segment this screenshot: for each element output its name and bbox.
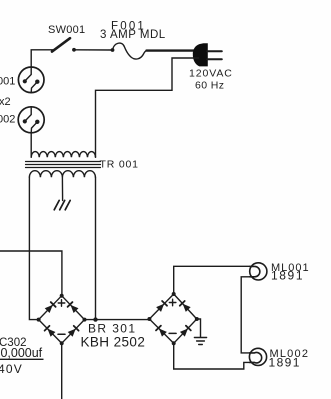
- svg-text:KBH 2502: KBH 2502: [81, 335, 146, 350]
- transformer secondary center tap wire: [61, 177, 63, 200]
- lamp ML002 filament loop: [250, 353, 262, 363]
- svg-text:x2: x2: [0, 96, 11, 108]
- bridge 2 plus sign: [169, 299, 176, 306]
- bridge 2 diode lower-right: [180, 326, 191, 337]
- wire bridge 2 plus up and right to ML001: [174, 266, 250, 294]
- chassis ground (center tap): [54, 200, 70, 209]
- wire switch to fuse: [74, 49, 113, 51]
- bridge rectifier BR301 diamond: [39, 296, 85, 344]
- wire secondary right lead down to AC node between bridges: [95, 177, 97, 319]
- lamp ML001 filament loop: [250, 266, 260, 276]
- fuse F001 element (S-curve): [113, 43, 147, 59]
- BR301 diode upper-right: [68, 302, 79, 313]
- BR301 diode lower-left: [45, 326, 56, 337]
- plug prong lower: [207, 58, 222, 60]
- wire bridge 2 minus to ML002 lower lead: [174, 343, 250, 369]
- lamp ML002 circle: [249, 348, 266, 365]
- plug prong upper: [207, 50, 222, 52]
- svg-text:10,000uf: 10,000uf: [0, 346, 43, 360]
- switch SW001 blade: [52, 38, 70, 51]
- wire from socket string up to switch: [31, 50, 53, 67]
- underline of capacitance value: [0, 358, 44, 360]
- transformer TR001 secondary winding: [29, 171, 95, 178]
- bridge 2 minus sign: [169, 332, 176, 334]
- transformer TR001 primary winding: [31, 152, 95, 158]
- svg-text:40V: 40V: [0, 362, 23, 376]
- bridge 2 diode upper-left: [156, 301, 167, 312]
- socket 002 contacts: [25, 107, 31, 121]
- bridge 2 diode upper-right: [180, 301, 191, 312]
- svg-text:001: 001: [0, 76, 15, 88]
- BR301 diode lower-right: [68, 326, 79, 337]
- svg-text:3 AMP MDL: 3 AMP MDL: [100, 29, 166, 41]
- wire AC node between bridges: [85, 319, 150, 321]
- bridge 2 diode lower-left: [156, 326, 167, 337]
- BR301 vertex dots: [60, 294, 64, 298]
- svg-text:002: 002: [0, 113, 15, 125]
- svg-text:1891: 1891: [271, 269, 304, 283]
- svg-text:60 Hz: 60 Hz: [195, 80, 224, 92]
- BR301 plus sign: [58, 300, 65, 307]
- wire C302 positive to bridge BR301 plus: [0, 251, 62, 296]
- socket 002 circle: [18, 107, 44, 133]
- wire (heavy line cord) fuse to plug: [147, 49, 198, 51]
- junction dot at transformer right lead: [93, 317, 97, 321]
- socket 001 circle: [18, 67, 44, 93]
- socket 001 contacts: [25, 67, 31, 81]
- wire socket string down to transformer primary left: [30, 133, 32, 157]
- bridge 2 vertex dots: [172, 292, 176, 296]
- svg-text:1891: 1891: [269, 356, 301, 370]
- lamp ML001 circle: [250, 263, 267, 280]
- switch SW001 right contact dot: [72, 48, 76, 52]
- wire ML001 to ML002: [241, 277, 250, 353]
- BR301 diode upper-left: [45, 302, 56, 313]
- BR301 minus sign: [58, 333, 65, 335]
- plug body (120VAC): [193, 44, 207, 66]
- earth ground: [194, 338, 206, 345]
- svg-text:BR 301: BR 301: [88, 322, 136, 336]
- bridge rectifier 2 diamond: [149, 294, 196, 343]
- wire bridge 2 right vertex to earth ground: [197, 319, 201, 337]
- wire plug lower lead to transformer primary right: [96, 58, 199, 157]
- wire secondary left lead down to bridge BR301 left: [29, 177, 38, 319]
- wire BR301 minus down to bottom edge: [61, 343, 63, 399]
- svg-text:SW001: SW001: [48, 24, 85, 36]
- fuse F001 left terminal dot: [111, 48, 115, 52]
- transformer TR001 core lines: [26, 162, 101, 168]
- svg-text:TR 001: TR 001: [100, 158, 139, 170]
- svg-text:120VAC: 120VAC: [189, 68, 233, 80]
